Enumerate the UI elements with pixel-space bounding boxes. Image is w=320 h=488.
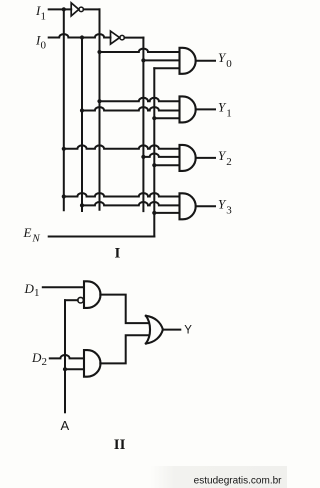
wire Y0 top input (I1') <box>100 49 180 52</box>
wire Y3 top input (I1) <box>64 193 180 196</box>
svg-text:2: 2 <box>42 356 48 368</box>
junction I0 bus to Y3 <box>80 203 84 207</box>
svg-text:D: D <box>31 350 42 365</box>
wire Y0 middle input (I0') <box>143 59 179 61</box>
wire U3 output to OR <box>100 295 147 324</box>
junction I1 bus to Y3 <box>62 194 66 198</box>
wire Y1 output <box>196 108 215 110</box>
wire Y2 output <box>196 157 215 159</box>
junction I1 tap <box>62 7 66 11</box>
node I1 label <box>35 3 46 22</box>
wire A vertical <box>64 300 66 412</box>
node Y label <box>184 324 192 336</box>
svg-text:I: I <box>115 245 121 261</box>
svg-text:estudegratis.com.br: estudegratis.com.br <box>194 476 282 487</box>
wire Y3 bottom input (EN) <box>154 212 179 214</box>
svg-text:A: A <box>61 418 70 433</box>
wire vertical bus I0' (x=143.4) <box>142 38 144 212</box>
wire inverter U2 output to corner <box>124 37 143 39</box>
node I0 label <box>35 32 47 51</box>
node D1 label <box>24 281 40 299</box>
node circuit label II <box>114 437 126 453</box>
wire Y1 middle input (I0) <box>82 107 180 110</box>
node Y3 label <box>218 197 232 217</box>
wire EN horizontal <box>49 236 155 238</box>
svg-text:1: 1 <box>226 108 232 120</box>
svg-text:1: 1 <box>41 11 47 23</box>
junction I0 tap <box>80 35 84 39</box>
node D2 label <box>31 350 47 368</box>
wire I1 input <box>49 8 71 10</box>
inverter U2 (I0) <box>111 31 125 44</box>
junction EN to Y3 <box>152 211 156 215</box>
junction I0 bus to Y1 <box>80 108 84 112</box>
junction I1' bus to Y0 <box>97 50 101 54</box>
svg-text:0: 0 <box>41 39 47 51</box>
wire Y2 middle input (I0') <box>143 153 179 156</box>
wire Y3 middle input (I0) <box>82 202 180 205</box>
svg-text:1: 1 <box>34 287 40 299</box>
svg-text:3: 3 <box>226 204 232 216</box>
node A label <box>61 418 70 433</box>
inverter U1 (I1) <box>71 3 83 16</box>
node EN label <box>23 225 41 245</box>
node Y1 label <box>218 100 232 120</box>
wire vertical bus I1 (x=63.8) <box>63 9 65 210</box>
bubble on gate U3 lower input <box>78 297 84 303</box>
wire vertical bus I1' (x=99.5) <box>99 9 101 209</box>
junction I1 bus to Y2 <box>62 147 66 151</box>
wire D1 input <box>43 286 84 288</box>
svg-text:D: D <box>24 281 35 296</box>
and-gate Y2 <box>180 145 196 171</box>
junction A to U4 <box>63 367 67 371</box>
wire inverter U1 output to corner <box>84 8 100 10</box>
junction I0' bus to Y2 <box>141 155 145 159</box>
wire D2 input with hop over A <box>50 355 84 358</box>
svg-text:Y: Y <box>184 324 192 336</box>
wire Y0 bottom input (EN) <box>154 67 179 69</box>
wire I0 input with hops <box>49 34 111 37</box>
node circuit label I <box>115 245 121 261</box>
wire Y3 output <box>196 205 215 207</box>
and-gate Y0 <box>180 48 196 74</box>
junction I1' bus to Y1 <box>97 99 101 103</box>
wire Y2 top input (I1) <box>64 145 180 148</box>
junction I0' bus to Y0 <box>141 58 145 62</box>
wire A-inverted input with bubble corner <box>65 299 78 301</box>
and-gate Y3 <box>180 193 196 219</box>
svg-text:2: 2 <box>226 156 232 168</box>
svg-text:E: E <box>23 225 32 240</box>
wire A branch to U4 lower input <box>65 368 84 370</box>
wire Y output <box>163 329 180 331</box>
and-gate U3 (top, D1 AND NOT A) <box>84 281 101 308</box>
wire Y2 bottom input (EN) <box>154 164 179 166</box>
wire vertical bus I0 (x=82) <box>81 38 83 212</box>
junction EN to Y1 <box>152 116 156 120</box>
node Y2 label <box>218 148 232 168</box>
wire U4 output to OR <box>100 335 147 363</box>
svg-text:N: N <box>31 233 40 245</box>
junction EN to Y2 <box>152 163 156 167</box>
or-gate U5 <box>146 316 163 344</box>
svg-text:0: 0 <box>226 58 232 70</box>
wire Y1 bottom input (EN) <box>154 117 179 119</box>
svg-text:II: II <box>114 437 126 453</box>
wire EN vertical (x=154.3) <box>153 68 155 236</box>
wire Y0 output <box>196 60 215 62</box>
and-gate Y1 <box>180 96 196 122</box>
node Y0 label <box>218 50 232 70</box>
and-gate U4 (bottom, D2 AND A) <box>84 350 101 377</box>
wire Y1 top input (I1') <box>100 98 180 101</box>
